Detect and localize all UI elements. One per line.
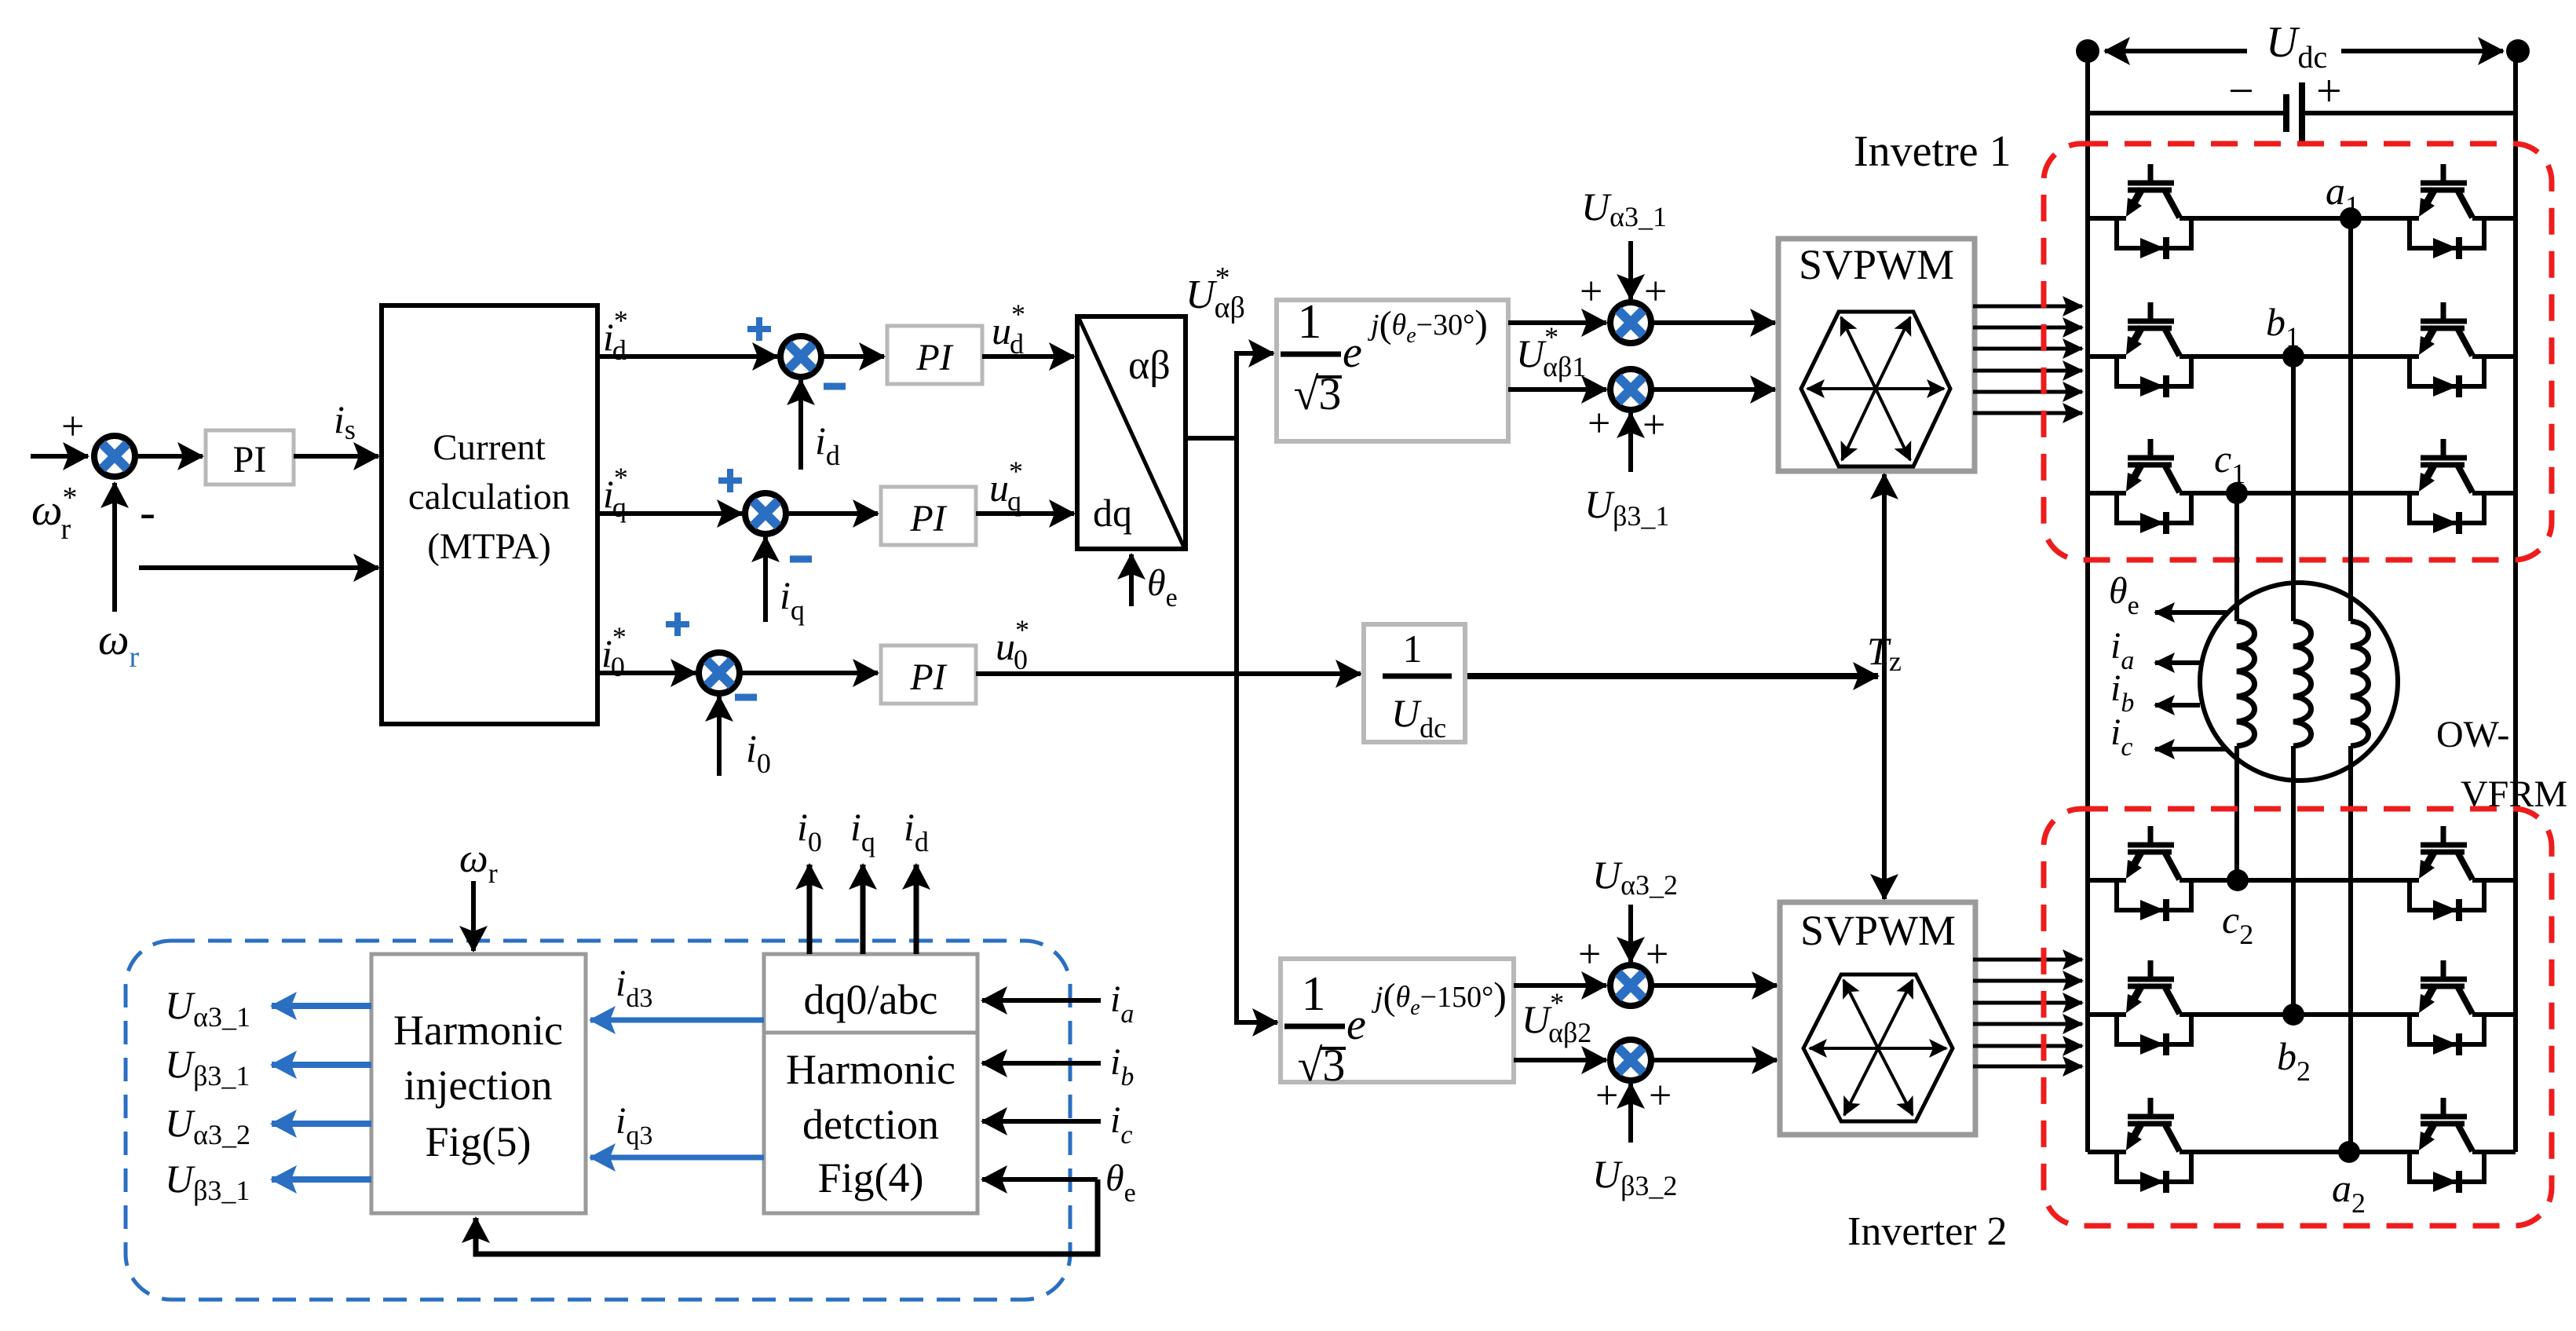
transistor inv2 left leg row 3 — [2117, 1098, 2191, 1193]
wire gate signal inv2-2 — [1973, 979, 2082, 983]
svg-text:−: − — [2228, 65, 2254, 116]
svg-text:id: id — [904, 805, 929, 857]
harmonic section enclosure (blue dashed) — [126, 941, 1070, 1300]
svg-text:+: + — [2316, 65, 2342, 116]
node plus at S2 — [718, 477, 742, 484]
wire gate signal inv2-4 — [1973, 1022, 2082, 1026]
transistor inv2 right leg row 1 — [2410, 826, 2484, 921]
motor OW-VFRM stator circle — [2200, 583, 2398, 781]
svg-text:+: + — [1646, 932, 1668, 977]
wire Udc measurement arrow right — [2341, 49, 2503, 53]
svg-text:ic: ic — [1110, 1099, 1132, 1150]
wire MTPA to S3 — [597, 671, 696, 675]
svg-text:j(θe−30°): j(θe−30°) — [1367, 302, 1488, 348]
svg-text:PI: PI — [915, 337, 953, 378]
svg-text:αβ: αβ — [1128, 343, 1171, 388]
svg-text:Uα3_1: Uα3_1 — [1581, 185, 1667, 232]
svg-text:+: + — [1649, 1073, 1672, 1118]
PI q-axis regulator — [881, 487, 976, 545]
wire inv2 row 3 middle segment — [2180, 1150, 2419, 1154]
wire J3 to SVPWM2 — [1653, 983, 1777, 988]
svg-text:+: + — [1578, 932, 1601, 977]
node c1 junction dot — [2226, 482, 2248, 504]
svg-text:Fig(4): Fig(4) — [818, 1154, 924, 1201]
node DC bus left terminal dot — [2076, 39, 2099, 63]
summing junction J4 — [1610, 1040, 1651, 1081]
wire PI speed to MTPA — [294, 454, 378, 459]
wire inv2 row 2 left segment — [2088, 1012, 2126, 1017]
svg-text:u*q: u*q — [989, 455, 1023, 517]
wire i_c into detection — [982, 1119, 1101, 1124]
wire into 150deg rotation block — [1237, 1020, 1277, 1025]
wire phase c column lower — [2234, 746, 2239, 880]
wire i_c sensor output — [2155, 747, 2227, 751]
wire gate signal inv1-1 — [1973, 305, 2082, 309]
svg-text:U*αβ2: U*αβ2 — [1522, 987, 1591, 1048]
transistor inv2 left leg row 2 — [2117, 960, 2191, 1055]
wire phase b column lower — [2291, 746, 2296, 1015]
svg-text:Inverter 2: Inverter 2 — [1847, 1209, 2008, 1254]
summing junction J2 — [1610, 369, 1651, 410]
hexagon space vector 2 — [1803, 974, 1953, 1121]
svg-text:-: - — [140, 486, 155, 538]
wire J4 to SVPWM2 — [1653, 1058, 1777, 1062]
transistor inv2 right leg row 2 — [2410, 960, 2484, 1055]
wire harmonic voltage output y1356 — [272, 1062, 371, 1068]
coil phase b winding — [2293, 621, 2311, 746]
wire 150deg block to J3 — [1514, 983, 1606, 988]
wire U_a3_2 into J3 — [1628, 905, 1633, 962]
summing junction S0 speed error — [94, 436, 135, 477]
transistor inv1 right leg row 2 — [2410, 302, 2484, 397]
block dq to alpha-beta transform — [1077, 316, 1186, 549]
svg-text:+: + — [61, 404, 84, 449]
wire theta_e into detection — [982, 1177, 1098, 1182]
transistor inv1 right leg row 3 — [2410, 439, 2484, 534]
wire gate signal inv1-2 — [1973, 326, 2082, 330]
wire omega_r feedback up into S0 — [112, 483, 117, 612]
node a2 junction dot — [2338, 1141, 2360, 1163]
wire PI d to transform — [982, 354, 1074, 359]
svg-text:id3: id3 — [616, 963, 652, 1013]
wire inv2 row 3 left segment — [2088, 1150, 2126, 1154]
wire inv1 row 1 right segment — [2472, 216, 2516, 221]
svg-text:i0: i0 — [797, 805, 822, 857]
block SVPWM inverter-2 modulator — [1780, 902, 1975, 1135]
svg-text:e: e — [1346, 1000, 1366, 1049]
wire inv2 row 1 right segment — [2472, 878, 2516, 883]
wire phase a column lower — [2348, 746, 2353, 1152]
block harmonic detection Fig(4) — [764, 1033, 977, 1213]
wire vertical distribution bus — [1234, 351, 1239, 1025]
wire inv2 row 1 left segment — [2088, 878, 2126, 883]
wire PI 0 to 1/Udc block — [976, 671, 1361, 676]
wire transform output to tee — [1186, 436, 1239, 441]
svg-text:detction: detction — [802, 1101, 939, 1148]
svg-text:Fig(5): Fig(5) — [426, 1118, 532, 1165]
wire 150deg block to J4 — [1514, 1058, 1606, 1062]
svg-text:ia: ia — [1110, 978, 1134, 1029]
svg-text:is: is — [334, 397, 356, 445]
wire inv1 row 2 right segment — [2472, 354, 2516, 359]
svg-text:b1: b1 — [2266, 300, 2300, 353]
transistor inv1 right leg row 1 — [2410, 164, 2484, 259]
wire inv1 row 3 left segment — [2088, 491, 2126, 495]
wire DC rail right — [2513, 51, 2518, 1152]
svg-text:a2: a2 — [2332, 1166, 2366, 1219]
svg-text:injection: injection — [404, 1062, 553, 1109]
svg-text:+: + — [1588, 401, 1610, 446]
summing junction S2 q-axis — [745, 493, 786, 534]
block current calculation MTPA — [382, 305, 597, 724]
node plus at S1 — [747, 326, 771, 332]
wire i_0 output up — [807, 865, 813, 954]
node c2 junction dot — [2227, 869, 2249, 891]
svg-text:+: + — [1642, 403, 1665, 448]
wire i_b sensor output — [2155, 703, 2200, 708]
wire U_a3_1 into J1 — [1628, 241, 1633, 299]
svg-text:Uα3_2: Uα3_2 — [165, 1101, 250, 1150]
wire S1 to PI d — [823, 354, 884, 359]
svg-text:Uβ3_1: Uβ3_1 — [165, 1042, 250, 1091]
wire gate signal inv1-5 — [1973, 390, 2082, 394]
svg-text:Uα3_2: Uα3_2 — [1592, 853, 1678, 901]
svg-text:u*d: u*d — [992, 298, 1025, 360]
wire i_d3 blue link — [590, 1018, 764, 1023]
wire DC rail left — [2085, 51, 2090, 1152]
block 1/sqrt3 e^j(theta-150) — [1281, 959, 1514, 1082]
PI zero-axis regulator — [881, 645, 976, 704]
block harmonic injection Fig(5) — [371, 954, 586, 1213]
summing junction S3 zero-axis — [699, 653, 740, 693]
svg-text:i0: i0 — [746, 726, 771, 779]
svg-text:θe: θe — [1147, 562, 1178, 612]
svg-text:u*0: u*0 — [996, 614, 1029, 675]
svg-text:calculation: calculation — [408, 477, 570, 517]
wire i_q3 blue link — [590, 1155, 764, 1161]
wire i_0 feedback into S3 — [717, 697, 722, 776]
wire phase a column upper — [2348, 218, 2353, 621]
wire phase b column upper — [2291, 357, 2296, 621]
wire inv1 row 3 middle segment — [2180, 491, 2419, 495]
svg-text:SVPWM: SVPWM — [1800, 907, 1956, 954]
PI speed regulator — [206, 430, 294, 484]
block SVPWM inverter-1 modulator — [1778, 239, 1975, 471]
svg-text:iq: iq — [850, 805, 875, 857]
svg-text:U*αβ1: U*αβ1 — [1516, 321, 1586, 382]
wire theta_e sensor output — [2155, 610, 2228, 615]
svg-text:e: e — [1343, 328, 1362, 377]
hexagon space vector 1 — [1801, 312, 1950, 466]
svg-text:j(θe−150°): j(θe−150°) — [1371, 974, 1507, 1020]
wire PI q to transform — [976, 511, 1074, 516]
svg-text:SVPWM: SVPWM — [1799, 241, 1954, 288]
wire speed-ref input — [31, 454, 88, 459]
transistor inv1 left leg row 1 — [2117, 164, 2191, 259]
coil phase a winding — [2351, 621, 2369, 746]
wire S0 to PI speed — [138, 454, 203, 459]
svg-text:OW-: OW- — [2436, 714, 2509, 755]
svg-text:dq: dq — [1093, 491, 1132, 535]
svg-text:Uβ3_1: Uβ3_1 — [1584, 482, 1669, 532]
svg-text:ic: ic — [2110, 711, 2132, 762]
wire 30deg block to J1 — [1508, 320, 1606, 325]
transistor inv2 right leg row 3 — [2410, 1098, 2484, 1193]
wire i_a into dq0/abc — [982, 998, 1101, 1003]
wire gate signal inv1-3 — [1973, 347, 2082, 351]
node minus at S2 — [790, 556, 812, 563]
svg-text:Tz: Tz — [1867, 629, 1902, 677]
wire gate signal inv1-6 — [1973, 411, 2082, 415]
wire J1 to SVPWM1 — [1653, 320, 1775, 325]
block 1/sqrt3 e^j(theta-30) — [1277, 300, 1508, 441]
svg-text:dq0/abc: dq0/abc — [804, 976, 938, 1023]
wire Udc measurement arrow left — [2105, 49, 2247, 53]
PI d-axis regulator — [887, 326, 982, 384]
inverter 2 enclosure (red dashed) — [2044, 809, 2552, 1226]
wire omega_r into harmonic injection — [471, 881, 476, 951]
wire theta_e feedback to injection — [476, 1179, 1098, 1254]
transistor inv1 left leg row 2 — [2117, 302, 2191, 397]
wire phase c column upper — [2234, 493, 2239, 621]
svg-text:ωr: ωr — [459, 836, 498, 889]
coil phase c winding — [2237, 621, 2255, 746]
svg-text:1: 1 — [1298, 295, 1322, 349]
svg-text:Uβ3_1: Uβ3_1 — [165, 1157, 250, 1206]
svg-text:ib: ib — [1110, 1041, 1134, 1091]
wire gate signal inv2-6 — [1973, 1065, 2082, 1069]
svg-text:Current: Current — [433, 427, 546, 468]
wire MTPA to S2 — [597, 511, 742, 516]
wire U_b3_1 into J2 — [1628, 413, 1633, 472]
wire i_b into detection — [982, 1061, 1101, 1066]
svg-text:PI: PI — [909, 656, 947, 698]
wire gate signal inv2-5 — [1973, 1044, 2082, 1048]
wire transform diagonal — [1079, 318, 1184, 547]
summing junction J1 — [1610, 302, 1651, 343]
svg-text:c2: c2 — [2222, 898, 2253, 950]
wire T_z vertical link — [1882, 474, 1887, 896]
svg-text:Invetre 1: Invetre 1 — [1854, 127, 2011, 176]
svg-text:θe: θe — [1105, 1157, 1136, 1208]
wire inv1 row 2 left segment — [2088, 354, 2126, 359]
svg-text:ωr: ωr — [98, 616, 140, 674]
wire J2 to SVPWM1 — [1653, 387, 1775, 392]
svg-text:iq3: iq3 — [616, 1100, 652, 1150]
wire omega_r branch to MTPA — [139, 565, 378, 570]
block 1 over Udc — [1364, 624, 1465, 742]
svg-text:c1: c1 — [2214, 437, 2245, 489]
svg-text:Harmonic: Harmonic — [786, 1046, 955, 1093]
svg-text:id: id — [815, 419, 840, 471]
summing junction J3 — [1610, 965, 1651, 1006]
wire gate signal inv2-1 — [1973, 958, 2082, 962]
wire i_q output up — [860, 865, 866, 954]
svg-text:ω*r: ω*r — [31, 481, 78, 546]
inverter 1 enclosure (red dashed) — [2044, 144, 2552, 560]
wire S2 to PI q — [787, 511, 878, 516]
summing junction S1 d-axis — [780, 336, 821, 377]
wire i_d output up — [914, 865, 919, 954]
svg-text:b2: b2 — [2277, 1034, 2311, 1087]
svg-text:PI: PI — [909, 498, 947, 539]
wire inv2 row 2 right segment — [2472, 1012, 2516, 1017]
wire i_q feedback into S2 — [763, 537, 768, 622]
wire gate signal inv2-3 — [1973, 1001, 2082, 1005]
wire inv1 row 3 right segment — [2472, 491, 2516, 495]
wire MTPA to S1 — [597, 354, 777, 359]
block dq0/abc transform — [764, 954, 977, 1033]
node minus at S1 — [824, 383, 846, 390]
node b1 junction dot — [2282, 346, 2304, 367]
wire S3 to PI 0 — [741, 671, 878, 675]
svg-text:1: 1 — [1403, 627, 1423, 671]
node plus at S3 — [666, 621, 689, 627]
node minus at S3 — [735, 694, 757, 701]
svg-text:PI: PI — [233, 439, 267, 481]
wire battery link left — [2088, 111, 2283, 115]
wire gate signal inv1-4 — [1973, 369, 2082, 373]
battery positive plate — [2299, 82, 2305, 144]
svg-text:Uβ3_2: Uβ3_2 — [1592, 1152, 1677, 1201]
node a1 junction dot — [2340, 207, 2362, 229]
svg-text:+: + — [1580, 269, 1602, 314]
wire 1/Udc output T_z — [1465, 673, 1878, 679]
transistor inv2 left leg row 1 — [2117, 826, 2191, 921]
transistor inv1 left leg row 3 — [2117, 439, 2191, 534]
svg-text:1: 1 — [1302, 967, 1326, 1021]
svg-text:U*αβ: U*αβ — [1186, 261, 1245, 324]
svg-text:Harmonic: Harmonic — [393, 1007, 563, 1054]
wire inv2 row 3 right segment — [2472, 1150, 2516, 1154]
wire 30deg block to J2 — [1508, 387, 1606, 392]
wire harmonic voltage output y1431 — [272, 1121, 371, 1127]
wire inv1 row 1 left segment — [2088, 216, 2126, 221]
wire inv2 row 1 middle segment — [2180, 878, 2419, 883]
svg-text:+: + — [1595, 1073, 1618, 1118]
svg-text:iq: iq — [780, 573, 805, 626]
wire U_b3_2 into J4 — [1628, 1084, 1633, 1143]
wire i_a sensor output — [2155, 660, 2201, 665]
wire i_d feedback into S1 — [798, 380, 803, 470]
wire inv1 row 1 middle segment — [2180, 216, 2419, 221]
wire harmonic voltage output y1281 — [272, 1003, 371, 1009]
svg-text:Uα3_1: Uα3_1 — [165, 983, 250, 1033]
node b2 junction dot — [2282, 1004, 2304, 1026]
wire inv1 row 2 middle segment — [2180, 354, 2419, 359]
svg-text:θe: θe — [2109, 570, 2139, 620]
wire harmonic voltage output y1502 — [272, 1176, 371, 1183]
battery negative plate — [2283, 94, 2289, 132]
node DC bus right terminal dot — [2506, 39, 2530, 63]
wire into 30deg rotation block — [1237, 351, 1273, 356]
wire theta_e into transform — [1129, 554, 1134, 606]
wire battery link right — [2305, 111, 2516, 115]
svg-text:(MTPA): (MTPA) — [427, 526, 551, 567]
wire inv2 row 2 middle segment — [2180, 1012, 2419, 1017]
